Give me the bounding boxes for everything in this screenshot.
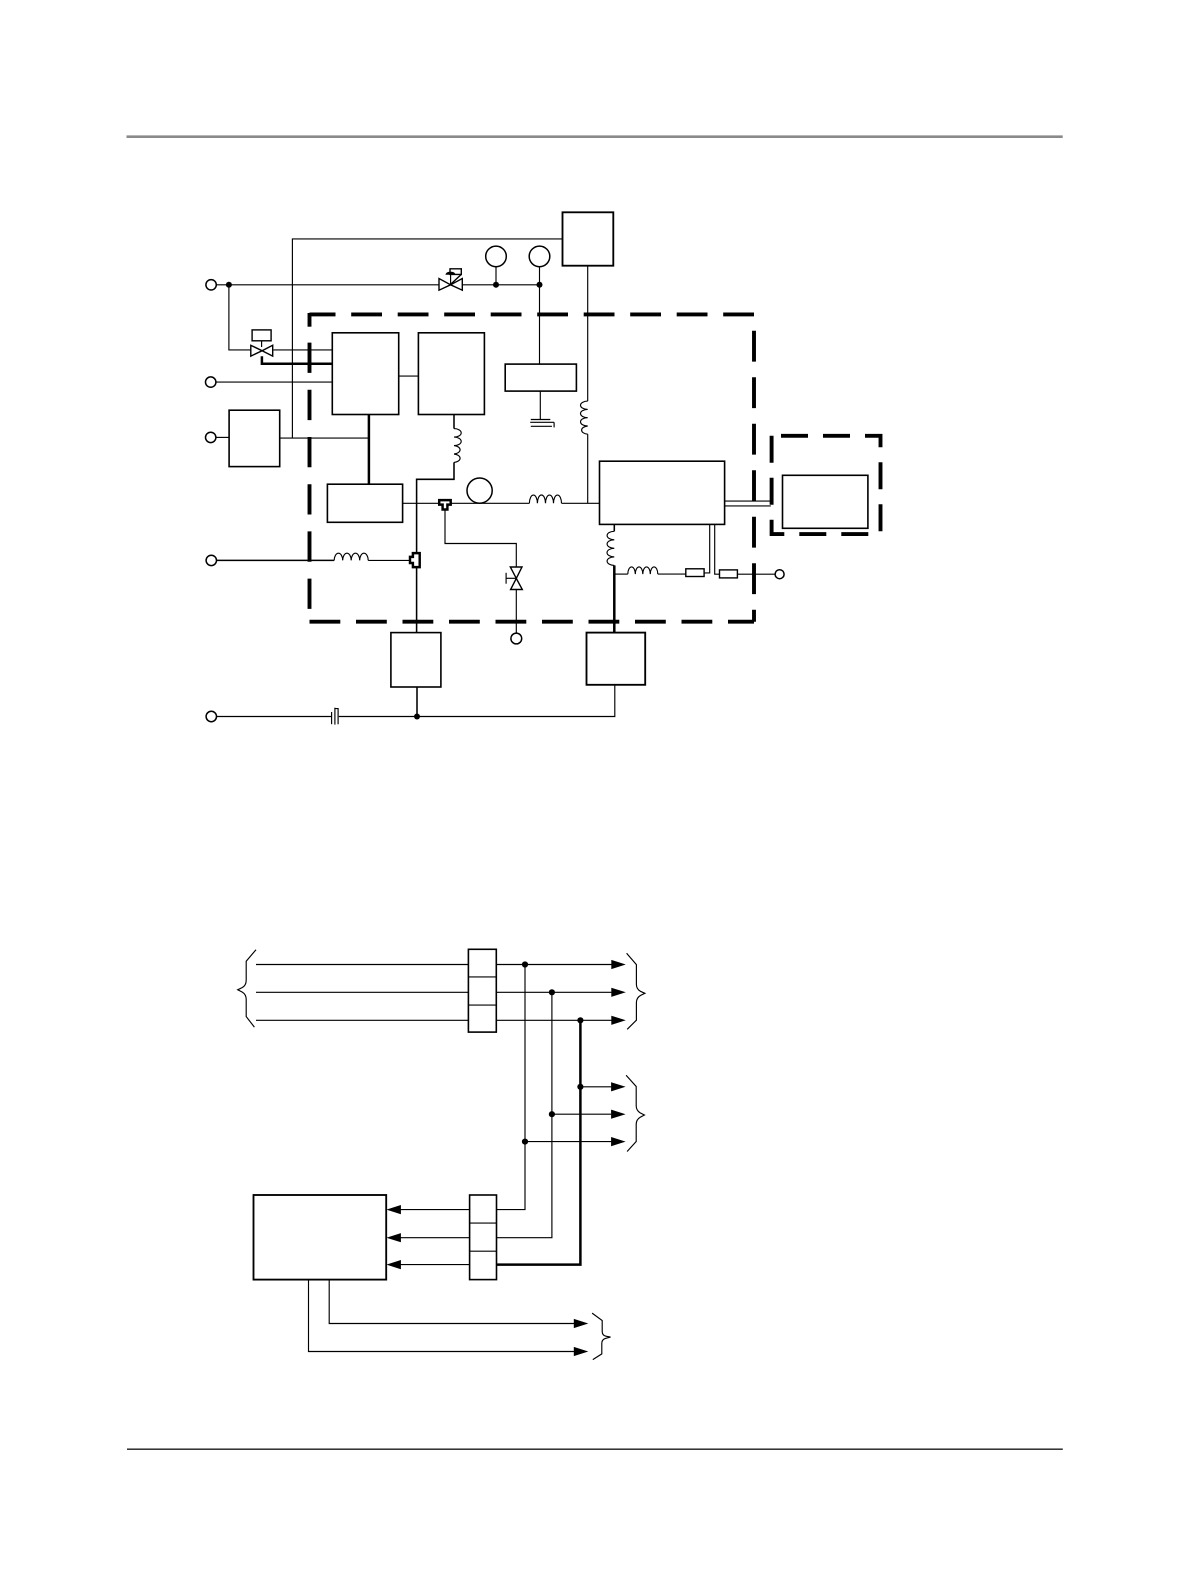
wire thick below coil L3 to box H [613,565,616,632]
bus line A3 [256,1019,468,1021]
junction dot return line [414,714,420,720]
header rule [127,135,1063,138]
resistor R1 [686,569,704,577]
wire terminal P3 to box D [216,436,229,438]
terminal P2 [206,377,216,387]
wire inlet 4 thick from terminal P4 [217,559,335,561]
terminal P6 output [775,570,784,579]
out line A1 with arrow [496,960,626,969]
buffer stack S1 [468,949,496,1032]
waveguide double line lower [725,505,771,507]
box F filter [505,364,576,391]
waveguide double line RF box to sub unit [725,500,771,502]
wire main line after coil L1 [562,502,600,504]
controller box K [254,1195,387,1280]
wire gauge tap drop to filter box F [539,285,541,364]
brace right group 2 [626,1075,644,1151]
junction dot A2 [549,989,555,995]
wire second riser to R2 [715,524,720,574]
wire link B1 to B2 [399,375,419,377]
bus line A2 [256,991,468,993]
coil L3 vertical below RF box [607,531,614,565]
coil L6 horizontal [628,567,658,574]
dashed enclosure sub unit [772,436,881,534]
wire after coil L2 to fitting T2 [368,559,410,561]
wire box D to stem node [280,437,369,439]
wire stem from top box C down [587,266,589,401]
terminal P4 [206,555,216,565]
terminal P5 [206,711,216,721]
regulator valve V2 flag [445,269,461,285]
wire main line box E to box RF [403,502,530,504]
wire fitting T1 stem to needle valve [445,511,516,567]
wire top link horizontal [292,239,562,438]
junction dot A3 [577,1017,583,1023]
brace right group 3 [592,1313,610,1360]
dashed enclosure main unit [310,313,755,622]
regulator valve V2 body [439,279,462,291]
pressure gauge G1 [486,246,507,285]
wire battery to terminal P5 [217,716,332,718]
resistor R2 [720,570,738,578]
junction dot B2 [549,1111,555,1117]
branch line B3 with arrow [525,1137,626,1146]
fitting T1 on main line [439,500,451,509]
brace left input group [238,950,256,1027]
solenoid valve V1 pilot box [252,330,271,341]
wire box B2 stem [453,414,455,428]
box C top right [563,212,614,265]
box B1 [332,333,398,415]
junction dot at P1 branch [226,282,232,288]
battery cell bars [332,708,339,725]
fitting T2 on vertical bus [410,553,420,567]
junction dot gauge 2 [537,282,543,288]
solenoid valve V1 body [251,345,273,356]
stack S2 to box K arrow 3 [386,1260,469,1269]
terminal P7 drain [511,633,522,644]
wire RF box bottom stem [613,524,615,531]
tap vertical A2 to stack S2 [497,992,552,1237]
wire inlet 2 from terminal P2 to box B1 [216,381,332,383]
box load inside sub unit [783,475,868,528]
wire box H bottom return [417,685,615,717]
wire vertical bus through fitting to box G [416,567,418,633]
solenoid valve V1 stem [261,341,263,347]
wire regulator to gauges [462,284,539,286]
stack S2 to box K arrow 1 [386,1205,469,1214]
out line A3 with arrow [496,1016,626,1025]
junction dot B3 [522,1139,528,1145]
box H [587,633,646,685]
terminal P1 [206,280,216,290]
box K output 1 with arrow [329,1280,588,1329]
branch line B1 with arrow [580,1082,625,1091]
box B2 [418,333,484,415]
branch line B2 with arrow [552,1110,626,1119]
junction dot A1 [522,961,528,967]
coil L5 vertical below box B2 [454,429,461,463]
needle valve V3 side tick [506,573,516,584]
tap vertical A1 to stack S2 [497,965,526,1210]
sensor circle on main line [467,478,492,503]
ground symbol below filter F [530,391,554,427]
tap vertical A3 thick to stack S2 [497,1020,581,1264]
wire return node to battery [339,716,417,718]
out line A2 with arrow [496,988,626,997]
box G [391,633,441,687]
bus line A1 [256,964,468,966]
wire drop to solenoid valve V1 [229,285,251,350]
coil L1 on main line [529,495,561,503]
junction dot B1 [577,1084,583,1090]
wire thick gas path below V1 to box B1 [262,356,332,363]
wire elbow from coil L5 down to vertical bus [417,462,454,553]
wire box G bottom to return node [416,687,418,717]
box K output 2 with arrow [309,1280,589,1357]
wire node to coil L6 [614,573,628,575]
wire solenoid valve V1 to box B1 [273,349,332,351]
wire needle valve to drain terminal [515,590,517,633]
junction dot gauge 1 [493,282,499,288]
footer rule [127,1448,1063,1450]
box E driver [327,484,402,522]
wire stem below coil L4 to main line [587,434,589,503]
box D [229,410,280,466]
coil L2 on inlet 4 [334,553,368,560]
wire R2 to output terminal P6 [737,573,775,575]
terminal P3 [206,432,216,442]
wire coil L6 to resistor R1 [658,573,686,575]
brace right group 1 [627,953,645,1029]
wire stem B1 to box E thick [368,415,371,485]
pressure gauge G2 [529,246,550,285]
needle valve V3 body [510,567,522,590]
box RF main [600,461,725,524]
wire R1 riser pair to RF box bottom [704,524,710,573]
coil L4 vertical on stem of box C [581,401,588,434]
buffer stack S2 [470,1195,497,1280]
stack S2 to box K arrow 2 [386,1233,469,1242]
wire inlet 1 from terminal P1 [216,284,439,286]
